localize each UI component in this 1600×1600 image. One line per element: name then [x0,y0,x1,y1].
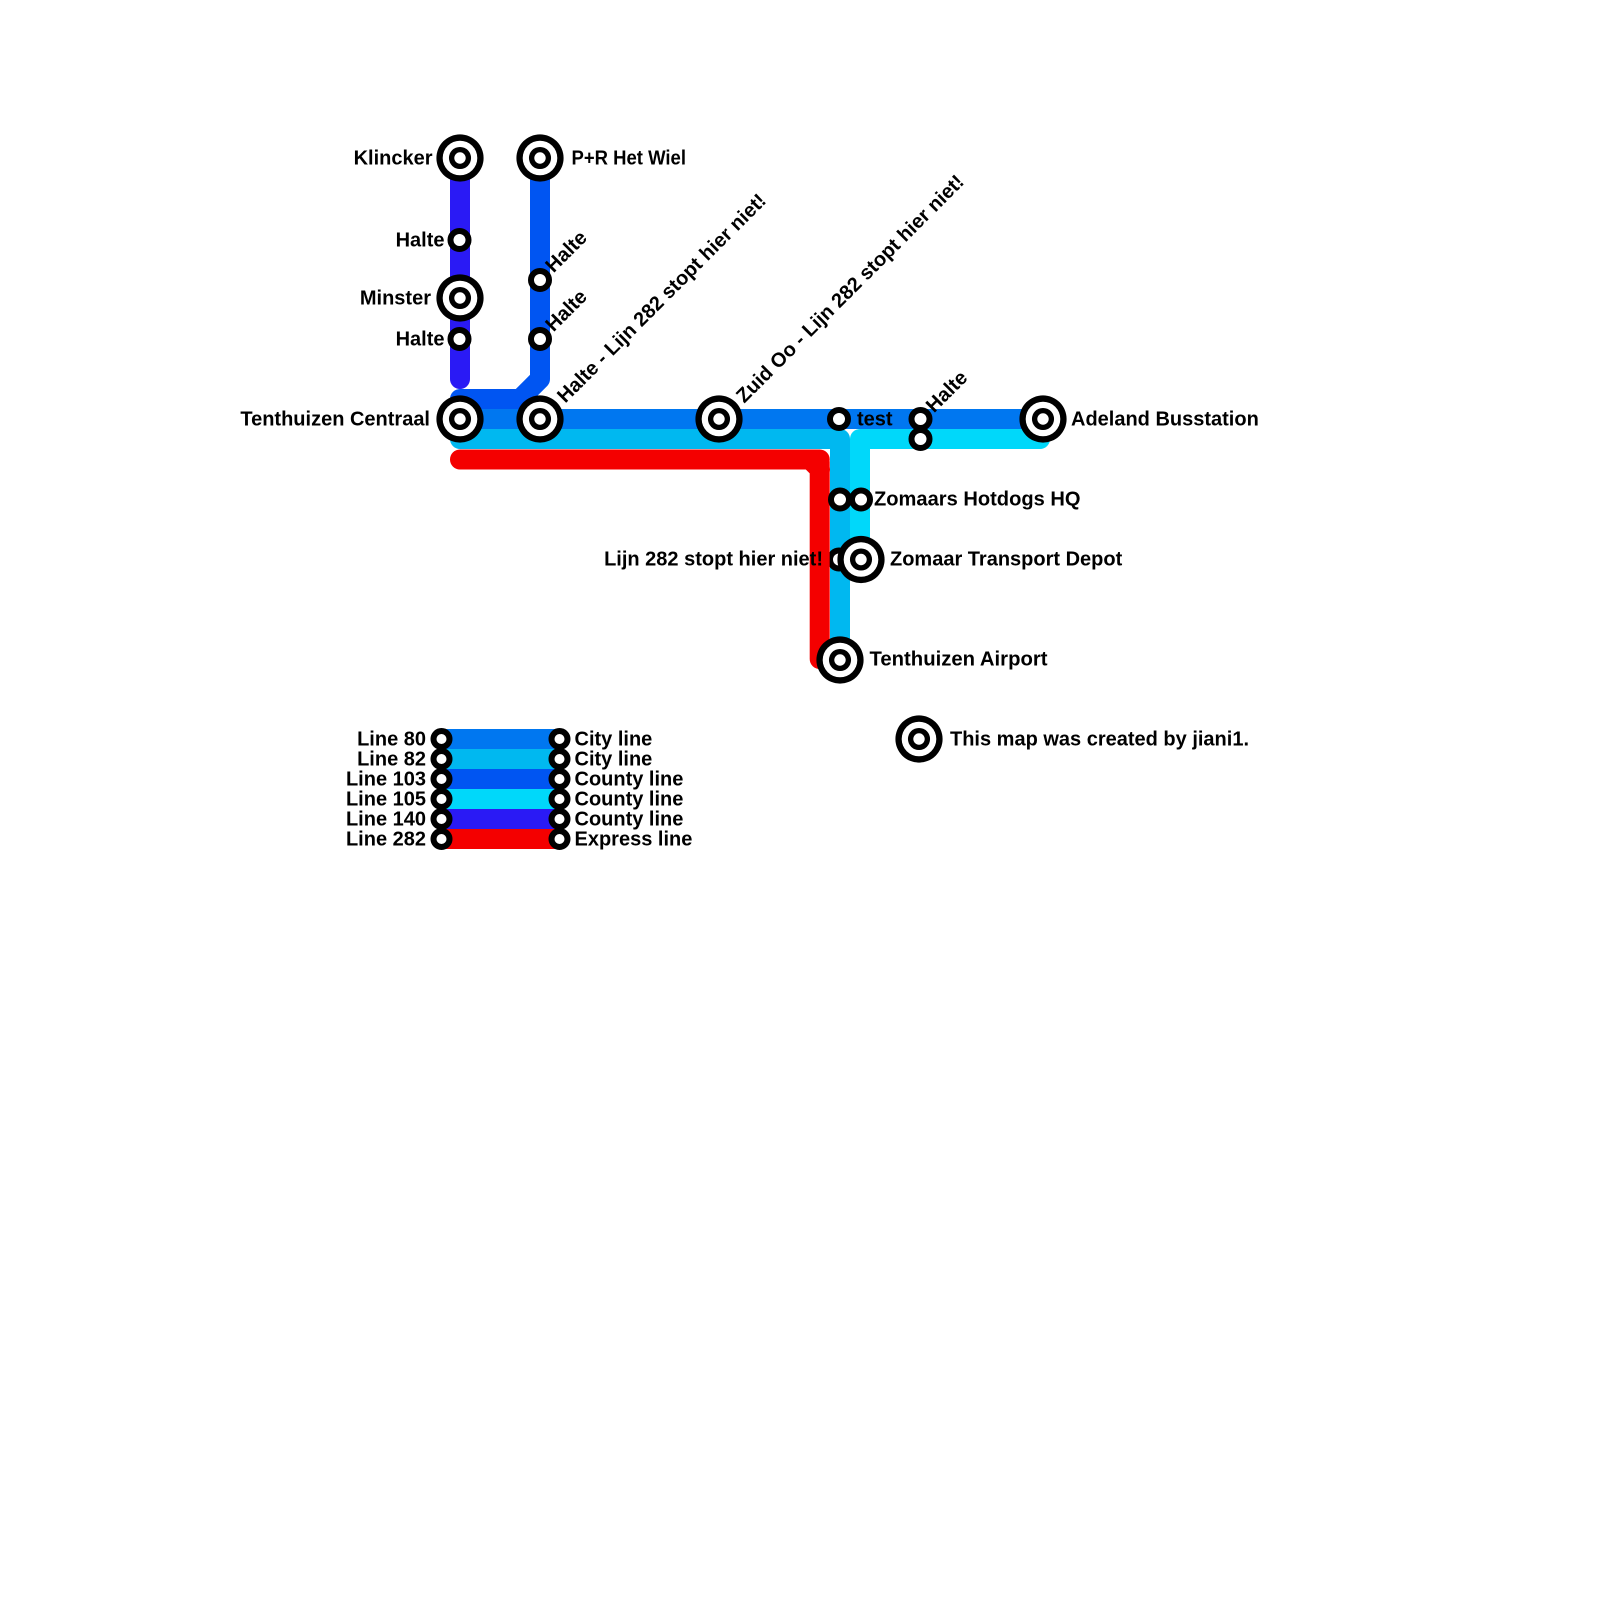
svg-text:This map was created by jiani1: This map was created by jiani1. [950,729,1249,751]
svg-text:test: test [857,409,893,431]
svg-text:Tenthuizen Airport: Tenthuizen Airport [870,649,1048,671]
svg-text:Halte: Halte [396,230,445,252]
svg-text:Line 105: Line 105 [346,789,426,811]
svg-text:County line: County line [575,789,684,811]
svg-text:Line 282: Line 282 [346,829,426,851]
svg-text:Line 140: Line 140 [346,809,426,831]
svg-text:P+R Het Wiel: P+R Het Wiel [572,148,687,170]
svg-text:Zomaars Hotdogs HQ: Zomaars Hotdogs HQ [874,489,1081,511]
svg-text:Line 80: Line 80 [357,729,426,751]
svg-text:Tenthuizen Centraal: Tenthuizen Centraal [240,409,430,431]
svg-text:Line 82: Line 82 [357,749,426,771]
svg-text:Line 103: Line 103 [346,769,426,791]
svg-text:County line: County line [575,809,684,831]
svg-text:Lijn 282 stopt hier niet!: Lijn 282 stopt hier niet! [604,549,823,571]
svg-text:Express line: Express line [575,829,693,851]
svg-text:City line: City line [575,749,653,771]
svg-text:County line: County line [575,769,684,791]
svg-text:Halte: Halte [396,329,445,351]
svg-text:City line: City line [575,729,653,751]
svg-text:Minster: Minster [360,288,431,310]
svg-text:Klincker: Klincker [354,148,433,170]
svg-text:Zomaar Transport Depot: Zomaar Transport Depot [890,549,1123,571]
svg-text:Adeland Busstation: Adeland Busstation [1071,409,1259,431]
